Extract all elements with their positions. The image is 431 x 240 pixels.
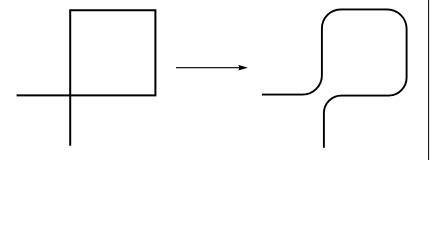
wire: arrow shaft	[176, 67, 240, 69]
wire: right figure rounded rerouted path	[262, 9, 407, 147]
wire: arrow head	[238, 65, 248, 71]
wire: left figure self-crossing polyline (square with extended edges)	[17, 10, 156, 146]
wire: right border line	[428, 0, 430, 160]
